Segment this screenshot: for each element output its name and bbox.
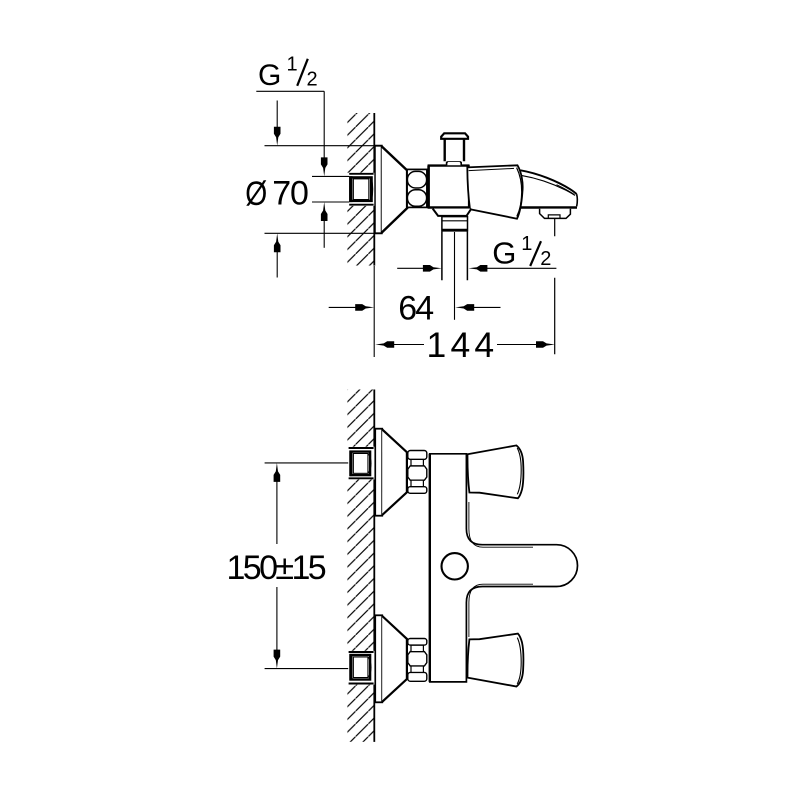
handle cone (top fig) bbox=[467, 165, 522, 218]
spout (fill + curves) bbox=[470, 170, 577, 206]
spout outlet box bbox=[540, 209, 571, 219]
150 dimension extension lines bbox=[265, 463, 350, 669]
svg-text:150±15: 150±15 bbox=[227, 549, 326, 587]
wall hole bottom white bbox=[348, 651, 374, 685]
handle cone top (bottom fig) bbox=[467, 445, 523, 498]
G1/2 top label leader bbox=[256, 91, 324, 164]
wall hole top white bbox=[348, 447, 374, 480]
64 dimension (y=307.4) bbox=[329, 306, 361, 308]
body left edge thick bbox=[429, 454, 431, 682]
collar below body bbox=[433, 209, 472, 216]
svg-text:G: G bbox=[258, 59, 281, 92]
wall hole edge lines bbox=[349, 174, 373, 205]
svg-text:G: G bbox=[492, 236, 516, 271]
svg-text:2: 2 bbox=[540, 248, 551, 270]
hex nut bottom (bottom fig) bbox=[408, 672, 427, 681]
handle cone bottom (bottom fig) bbox=[467, 634, 523, 687]
inner highlight lines bbox=[469, 502, 533, 547]
dimension extension lines Ø70 bbox=[265, 146, 382, 234]
150 dimension line + arrows bbox=[274, 463, 281, 482]
wall hole edge lines (bottom fig) bbox=[349, 448, 374, 478]
wall hatching (bottom figure) bbox=[347, 390, 374, 742]
svg-text:64: 64 bbox=[398, 289, 433, 327]
diverter circle bbox=[442, 553, 468, 579]
escutcheon cone bottom (bottom fig) bbox=[382, 616, 407, 702]
wall hatching (top figure) bbox=[347, 113, 374, 266]
svg-text:144: 144 bbox=[427, 325, 499, 365]
faucet body outline (bottom fig) bbox=[430, 454, 578, 682]
wall hole white bbox=[348, 173, 374, 206]
outlet leader line bbox=[554, 219, 556, 354]
Ø70 dimension arrows bbox=[276, 101, 278, 133]
escutcheon cone bbox=[382, 146, 408, 232]
svg-text:1: 1 bbox=[287, 54, 298, 76]
144 dimension (y=344.5) bbox=[375, 341, 394, 348]
pipe union bbox=[442, 217, 468, 231]
supply pipe bbox=[442, 232, 468, 281]
knob cylinder bbox=[445, 139, 464, 161]
escutcheon base bottom (bottom fig) bbox=[375, 615, 382, 702]
valve body bbox=[429, 166, 469, 208]
hex nut top (bottom fig) bbox=[408, 451, 427, 460]
wall face line (top figure) bbox=[373, 113, 375, 266]
hex union nut bbox=[407, 169, 427, 207]
escutcheon base top (bottom fig) bbox=[375, 429, 382, 516]
square fitting top (bottom fig) bbox=[351, 452, 371, 476]
G1/2 pipe dimension (y=268.3) bbox=[397, 267, 428, 269]
escutcheon base (wall flange) bbox=[375, 146, 382, 234]
aerator notch bbox=[548, 215, 560, 218]
square fitting bottom (bottom fig) bbox=[351, 655, 371, 680]
wall face line (bottom figure) bbox=[373, 390, 375, 742]
knob stem bbox=[447, 161, 462, 165]
G1/2 extension lines at square bbox=[312, 176, 349, 202]
svg-text:1: 1 bbox=[521, 233, 532, 255]
svg-text:2: 2 bbox=[307, 69, 318, 91]
escutcheon cone top (bottom fig) bbox=[382, 429, 407, 515]
square inlet fitting bbox=[350, 177, 371, 201]
knob cap bbox=[441, 133, 468, 139]
body + spout bottom edge bbox=[428, 206, 577, 209]
pipe centre line bbox=[454, 232, 456, 320]
svg-text:Ø: Ø bbox=[245, 175, 267, 213]
svg-text:70: 70 bbox=[272, 175, 308, 213]
wall extension line down bbox=[373, 266, 375, 357]
